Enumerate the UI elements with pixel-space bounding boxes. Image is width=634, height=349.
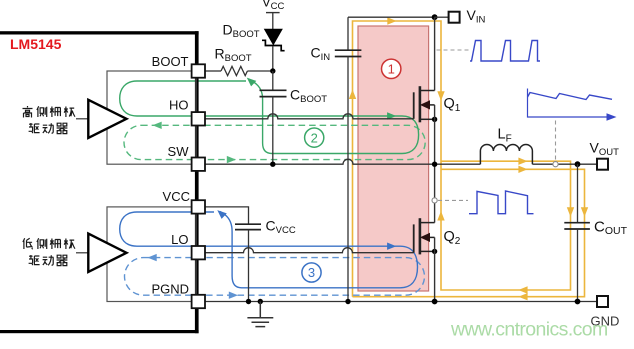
loop 3 dashed arrows	[148, 254, 239, 299]
node CIN/PGND junction	[345, 299, 350, 304]
IC pin column (thick vertical)	[195, 31, 199, 333]
capacitor CVCC	[235, 224, 261, 229]
annotation dashed lead inductor current	[555, 121, 557, 162]
svg-text:2: 2	[311, 130, 318, 145]
wire HO to Q1 gate (with hops)	[205, 114, 414, 119]
node VOUT junction	[575, 161, 581, 167]
loop 3 solid (low-side gate charge loop)	[120, 212, 418, 288]
VCC supply tick	[266, 12, 280, 14]
pin LO	[192, 246, 205, 259]
wire Q2 body/source down to PGND rail	[434, 237, 436, 301]
IC bottom boundary (thick)	[0, 330, 199, 333]
svg-text:BOOT: BOOT	[152, 54, 189, 69]
yellow current loop: input loop through CIN,Q1,Q2 and output loop through LF,COUT	[353, 21, 585, 297]
diode DBOOT (schottky)	[265, 29, 282, 44]
region 1 highlight (hot loop shaded area)	[358, 26, 429, 291]
high-side driver label 高侧栅极 驱动器	[23, 106, 76, 134]
low-side driver buffer triangle U2	[76, 252, 88, 254]
wire RBOOT to node	[247, 70, 272, 72]
node CBOOT to SW junction	[270, 162, 275, 167]
svg-text:www.cntronics.com: www.cntronics.com	[450, 319, 608, 341]
transistor Q2 (N-MOSFET)	[413, 224, 415, 252]
pin HO	[192, 112, 205, 125]
loop 2 solid (high-side gate charge loop)	[120, 80, 419, 154]
wire to VIN terminal	[435, 16, 449, 18]
terminal GND	[597, 296, 608, 307]
capacitor COUT	[577, 164, 579, 223]
svg-text:VCC: VCC	[163, 189, 190, 204]
terminal VIN	[449, 12, 460, 23]
svg-text:HO: HO	[169, 98, 189, 113]
low-side driver label 低侧栅极 驱动器	[23, 238, 75, 265]
loop 3 solid arrows	[217, 210, 396, 250]
inductor LF	[480, 144, 532, 164]
node COUT/GND junction	[575, 299, 581, 305]
waveform SW node (trapezoid pulses)	[469, 191, 534, 214]
pin SW	[192, 158, 205, 171]
node CVCC/PGND junction	[246, 299, 251, 304]
IC top boundary (thick)	[0, 31, 199, 34]
wire LO to Q2 gate (with hops)	[205, 248, 414, 253]
wire VIN node down to Q1 drain	[434, 17, 436, 90]
svg-text:PGND: PGND	[151, 282, 189, 297]
wire SW to Q1 source / Q2 drain (with hop)	[205, 159, 480, 164]
circle marker 1	[382, 59, 401, 78]
node Q2 source to PGND junction	[432, 299, 438, 305]
waveform inductor ripple trace	[528, 93, 613, 100]
yellow flow arrows	[349, 17, 588, 300]
node Q1 source junction	[432, 117, 437, 122]
wire BOOT pin to RBOOT	[205, 70, 221, 72]
wire PGND rail to GND terminal	[205, 301, 597, 303]
annotation dashed lead SW waveform	[432, 198, 437, 203]
node Q2 source junction	[432, 249, 437, 254]
capacitor CIN	[347, 17, 349, 50]
transistor Q1 (N-MOSFET)	[413, 92, 415, 119]
loop 2 dashed arrows	[153, 122, 237, 164]
ground symbol	[247, 302, 273, 327]
svg-text:3: 3	[308, 265, 315, 280]
node VIN junction	[432, 14, 438, 20]
wire VCC to DBOOT	[272, 13, 274, 30]
svg-text:SW: SW	[168, 144, 190, 159]
svg-text:LO: LO	[171, 232, 188, 247]
svg-text:1: 1	[388, 62, 395, 77]
svg-text:LM5145: LM5145	[10, 36, 62, 52]
circle marker 2	[305, 128, 324, 147]
pin PGND	[192, 295, 205, 308]
wire VIN top rail	[348, 16, 435, 18]
loop 3 dashed (low-side gate turn-off loop)	[125, 258, 425, 296]
wire VCC pin to CVCC	[205, 207, 249, 224]
terminal VOUT	[597, 159, 608, 170]
node BOOT/RBOOT/DBOOT junction	[270, 68, 275, 73]
wire LF to VOUT	[532, 163, 597, 165]
circle marker 3	[302, 263, 321, 282]
node ground stub junction	[258, 299, 263, 304]
node SW junction	[432, 162, 437, 167]
low-side driver box	[107, 207, 196, 302]
pin VCC	[192, 200, 205, 213]
wire Q1 body to source to SW	[434, 105, 436, 223]
waveform inductor ripple axes	[528, 89, 612, 118]
loop 2 solid arrows	[247, 78, 396, 120]
high-side driver box	[107, 71, 196, 164]
loop 2 dashed (high-side gate turn-off loop)	[124, 125, 425, 159]
high-side driver buffer triangle U1	[76, 118, 88, 120]
annotation dashed lead VIN waveform	[437, 49, 469, 51]
wire DBOOT to node	[272, 46, 274, 71]
waveform VIN current (square pulses)	[470, 41, 540, 62]
pin BOOT	[192, 64, 205, 77]
capacitor CBOOT	[272, 71, 274, 90]
resistor RBOOT	[221, 66, 247, 75]
